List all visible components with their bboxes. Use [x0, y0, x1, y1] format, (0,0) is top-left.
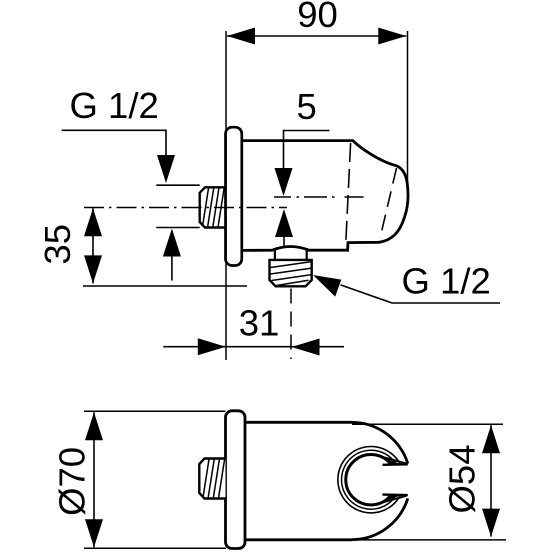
holder axis centerline [274, 196, 364, 198]
flange (front view) [226, 127, 242, 265]
bottom view: nipple [199, 459, 225, 499]
body hidden edge (dashed, cup right) [380, 168, 397, 238]
inlet nipple (front view) [200, 187, 226, 227]
svg-text:90: 90 [297, 0, 338, 35]
dimension D54 top extension line [352, 423, 503, 425]
label G 1/2 leader line [62, 130, 166, 156]
dimension D70 top arrow [85, 412, 103, 440]
svg-text:Ø70: Ø70 [51, 447, 92, 516]
bottom view: flange side [226, 411, 246, 549]
dimension D54 line [490, 425, 492, 536]
dimension D70 line [93, 412, 95, 547]
bottom view: nipple thread hatch [203, 459, 225, 497]
dimension 90 left arrow [227, 28, 255, 45]
thread OD top extension line [156, 184, 199, 186]
bottom view: flange bottom extension line [84, 547, 226, 549]
bottom view: body bottom edge [245, 538, 352, 541]
inlet nipple thread hatch [203, 188, 225, 226]
slot upper lip fill [380, 456, 402, 465]
dimension 31 right arrow [292, 339, 320, 356]
outlet nut [270, 260, 312, 286]
label G 1/2 right leader [341, 285, 501, 303]
holder cup middle circle [342, 450, 397, 509]
body (front view) [242, 141, 408, 251]
bottom view: outer end arc bottom [352, 498, 408, 539]
dimension 5 up arrow tail [283, 237, 285, 247]
slot lower back edge [380, 496, 407, 503]
bottom view: outer end arc top [352, 422, 408, 463]
svg-text:31: 31 [239, 303, 280, 344]
slot lower front edge [383, 493, 408, 496]
svg-text:G 1/2: G 1/2 [402, 261, 491, 302]
inlet axis centerline [84, 207, 287, 209]
dimension 5 leader [284, 131, 330, 170]
label G 1/2 right arrow [313, 275, 341, 297]
dimension 90 right arrow [378, 28, 406, 45]
dimension 35 line [92, 208, 94, 283]
dimension 35 top arrow [84, 208, 102, 236]
dimension 5 down arrow [275, 168, 293, 196]
dimension D70 bottom arrow [85, 519, 103, 547]
dimension 90 line [227, 35, 406, 37]
slot upper front edge [383, 463, 408, 466]
slot lower lip fill [380, 495, 402, 504]
outlet axis (dashed) [290, 289, 292, 360]
dimension D54 bottom arrow [482, 509, 500, 537]
body hidden edge (dashed, cup left) [346, 143, 351, 241]
svg-text:5: 5 [297, 86, 317, 127]
dimension 31 left arrow [198, 338, 226, 355]
dimension D54 bottom extension line [352, 539, 506, 541]
label G 1/2 leader arrow [157, 155, 175, 183]
outlet nut thread hatch [271, 262, 311, 286]
slot upper back edge [380, 456, 407, 463]
dimension 31 line [163, 346, 344, 348]
svg-text:35: 35 [37, 224, 78, 265]
svg-text:G 1/2: G 1/2 [70, 85, 159, 126]
extension line right (90 dim) [407, 31, 409, 184]
thread OD bottom extension line [156, 227, 199, 229]
extension line left (wall face, 90/31 dims) [225, 31, 227, 360]
bottom view: body top edge [245, 421, 352, 424]
holder cup bore circle [346, 455, 392, 505]
dimension 35 bottom extension line [83, 285, 247, 287]
thread OD up arrow tail [171, 256, 173, 281]
dimension D54 top arrow [482, 425, 500, 453]
dimension 5 up arrow [275, 209, 293, 237]
svg-text:Ø54: Ø54 [442, 445, 483, 514]
dimension 35 bottom arrow [84, 255, 102, 283]
bottom view: flange top extension line [84, 410, 226, 412]
outlet neck [274, 248, 276, 261]
thread OD up arrow [163, 229, 181, 257]
holder cup outer circle [338, 447, 401, 513]
